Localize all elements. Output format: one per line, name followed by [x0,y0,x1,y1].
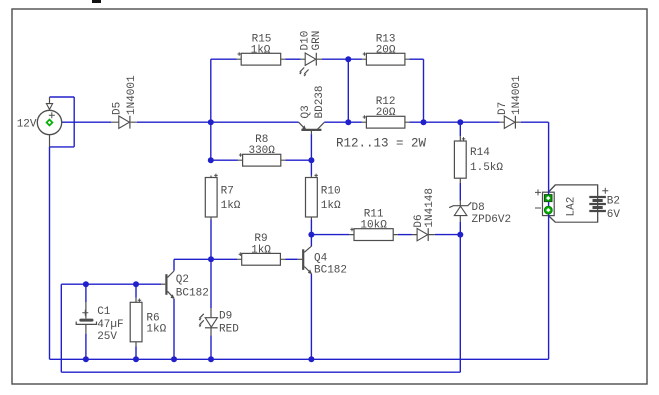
zener D8 ZPD6V2 [449,201,511,226]
wire [310,274,312,359]
svg-text:1N4001: 1N4001 [126,75,138,115]
wire [210,59,212,160]
svg-text:1kΩ: 1kΩ [251,44,271,56]
svg-text:1kΩ: 1kΩ [146,324,166,336]
note R12..13 = 2W [336,136,427,150]
wire [211,58,237,60]
wire [210,335,212,359]
node Q [308,356,314,362]
svg-text:10kΩ: 10kΩ [360,220,387,232]
node N [133,356,139,362]
svg-text:R10: R10 [321,186,341,198]
wire [347,59,349,122]
wire [50,96,75,98]
svg-text:20Ω: 20Ω [376,44,396,56]
wire [409,58,423,60]
wire [173,299,175,360]
transistor Q4 [298,246,347,276]
svg-text:1kΩ: 1kΩ [321,200,341,212]
terminal - marker [535,206,552,214]
node I [83,281,89,287]
svg-text:6V: 6V [607,209,621,221]
node M [83,356,89,362]
diode D7 [497,75,523,129]
node C [421,119,427,125]
wire [53,121,112,123]
svg-text:RED: RED [219,324,239,336]
battery B2 [589,185,620,223]
resistor R13 [362,33,410,65]
terminal + marker [535,189,552,201]
svg-text:330Ω: 330Ω [248,145,275,157]
svg-text:C1: C1 [97,306,111,318]
node B [345,119,351,125]
svg-text:ZPD6V2: ZPD6V2 [472,214,512,226]
resistor R11 [349,209,398,241]
svg-text:R9: R9 [254,233,267,245]
svg-text:12V: 12V [17,118,37,130]
resistor R7 [205,174,241,220]
wire [398,234,412,236]
wire [286,159,312,161]
svg-text:R12..13 = 2W: R12..13 = 2W [336,136,427,150]
svg-text:20Ω: 20Ω [376,107,396,119]
svg-text:D7: D7 [497,102,509,115]
resistor R8 [238,134,286,166]
svg-text:25V: 25V [97,331,117,343]
wire [311,234,349,236]
wire [409,121,499,123]
svg-text:Q2: Q2 [176,274,189,286]
svg-text:1kΩ: 1kΩ [251,244,271,256]
svg-text:D5: D5 [112,102,124,115]
svg-text:47µF: 47µF [97,319,123,331]
node G [308,157,314,163]
svg-text:1N4148: 1N4148 [424,188,436,228]
svg-text:BD238: BD238 [314,85,326,118]
node J [133,281,139,287]
LED D10 GRN [299,31,323,77]
svg-text:BC182: BC182 [314,265,347,277]
node K [308,232,314,238]
wire [459,222,461,235]
wire [310,160,312,175]
wire [324,121,362,123]
svg-text:Q3: Q3 [300,105,312,118]
svg-text:1.5kΩ: 1.5kΩ [470,162,503,174]
wire [211,159,238,161]
lamp LA2 [543,185,598,222]
wire [137,121,299,123]
wire [210,259,212,308]
resistor R6 [130,298,166,347]
svg-text:BC182: BC182 [176,287,209,299]
wire [73,97,75,147]
svg-text:GRN: GRN [311,31,323,51]
wire GND rail [50,358,549,360]
node L [457,232,463,238]
svg-text:1kΩ: 1kΩ [221,200,241,212]
wire [135,347,137,360]
resistor R9 [237,233,286,265]
resistor R14 [454,136,503,183]
svg-text:1N4001: 1N4001 [511,75,523,115]
resistor R10 [306,174,342,220]
wire [173,259,175,271]
wire return rail [61,371,460,373]
wire [285,58,300,60]
svg-text:R7: R7 [221,186,234,198]
svg-text:B2: B2 [607,196,620,208]
wire [85,284,87,302]
diode D5 [111,75,138,129]
svg-text:LA2: LA2 [566,197,578,217]
svg-text:R11: R11 [364,209,384,221]
svg-text:R14: R14 [470,147,490,159]
wire [135,284,137,298]
capacitor C1 [76,302,123,343]
wire [174,258,237,260]
wire [61,283,161,285]
resistor R15 [237,33,286,65]
wire [322,58,362,60]
resistor R12 [362,96,410,128]
wire [459,122,461,136]
svg-text:D8: D8 [472,202,485,214]
transistor Q3 [299,85,326,134]
node F [208,157,214,163]
transistor Q2 [161,271,209,299]
wire [459,235,461,373]
svg-text:D10: D10 [300,31,312,51]
LED D9 RED [199,308,240,336]
wire [310,235,312,247]
wire [50,146,75,148]
node A [208,119,214,125]
wire [49,147,51,359]
svg-text:D9: D9 [219,311,232,323]
svg-text:Q4: Q4 [314,252,328,264]
wire [435,234,461,236]
wire [286,258,298,260]
node E [345,56,351,62]
wire [459,183,461,201]
wire [210,220,212,260]
node H [208,256,214,262]
diode D6 [412,188,436,241]
wire [423,59,425,122]
wire [60,284,62,372]
supply source 12V [17,97,62,147]
node O [171,356,177,362]
node P [208,356,214,362]
wire [310,220,312,235]
wire [85,334,87,360]
node D [457,119,463,125]
wire [521,121,549,123]
wire [310,134,312,160]
wire through LA2 terminals [548,122,550,359]
